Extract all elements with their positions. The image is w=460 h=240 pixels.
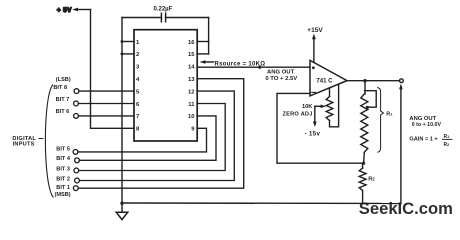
svg-text:741 C: 741 C (316, 79, 333, 85)
svg-text:10K: 10K (302, 104, 313, 110)
svg-text:ANG OUT: ANG OUT (267, 70, 295, 76)
svg-text:- 15v: - 15v (305, 131, 321, 137)
svg-text:10: 10 (188, 114, 195, 120)
svg-text:11: 11 (188, 102, 195, 108)
junction pin 2 stub (121, 52, 124, 55)
brace R1 (378, 88, 384, 153)
arrow +15V supply to op-amp (312, 34, 316, 40)
svg-text:BIT 4: BIT 4 (56, 156, 71, 162)
svg-text:(LSB): (LSB) (56, 77, 71, 83)
svg-text:(MSB): (MSB) (55, 192, 71, 198)
svg-text:BIT 6: BIT 6 (56, 109, 70, 115)
wire output node down to R1 (364, 81, 366, 94)
op-amp - input mark (312, 91, 316, 93)
svg-text:ANG OUT: ANG OUT (409, 116, 436, 122)
svg-text:Rsource = 10KΩ: Rsource = 10KΩ (215, 62, 266, 68)
terminal BIT 7 (74, 101, 79, 106)
arrow Rsource pointing to pin 14 (200, 60, 206, 64)
svg-text:+ 5V: + 5V (57, 7, 72, 14)
wire BIT 6 to pin 7 (78, 115, 134, 117)
wire +5V rail down to pin 8 (91, 10, 135, 129)
potentiometer 10K zero adjust (326, 97, 333, 121)
svg-text:R2: R2 (368, 176, 375, 182)
terminal BIT 6 (74, 114, 79, 119)
wire output measure line with up arrow (400, 87, 402, 204)
svg-text:BIT 8: BIT 8 (53, 85, 67, 91)
svg-text:0 TO + 2.5V: 0 TO + 2.5V (265, 76, 297, 82)
svg-text:ZERO ADJ: ZERO ADJ (282, 111, 312, 117)
svg-text:BIT 3: BIT 3 (56, 166, 70, 172)
wire pin 2 stub (122, 53, 134, 55)
junction on pin 14 wire (258, 66, 261, 69)
IC U1 DAC (134, 30, 197, 141)
svg-text:0 to + 10.0V: 0 to + 10.0V (412, 122, 442, 128)
junction R1 tap (366, 106, 369, 109)
wire cap right to bypass vertical (166, 17, 209, 19)
capacitor C1 plates (161, 13, 165, 21)
arrow pot wiper (315, 105, 323, 107)
op-amp + input mark (312, 66, 315, 69)
wire pot bottom loop to op-amp null pin (330, 84, 339, 127)
wire pin 1 stub (122, 41, 134, 43)
junction feedback node (362, 162, 365, 165)
brace digital inputs group (39, 85, 54, 198)
svg-text:INPUTS: INPUTS (13, 141, 35, 147)
svg-text:SeekIC.com: SeekIC.com (359, 199, 453, 218)
terminal BIT 4 (75, 158, 80, 163)
terminal BIT 8 (74, 89, 79, 94)
terminal BIT 5 (73, 150, 78, 155)
resistor R2 (359, 168, 366, 191)
fraction bar gain formula (442, 138, 453, 140)
svg-text:BIT 2: BIT 2 (56, 176, 70, 182)
svg-text:16: 16 (188, 40, 195, 46)
wire BIT 8 to pin 5 (79, 90, 134, 92)
svg-text:15: 15 (188, 52, 195, 58)
terminal output (400, 79, 404, 83)
svg-text:R1: R1 (444, 134, 450, 140)
wire ground bus vertical (121, 18, 123, 213)
wire pin 16 stub (197, 41, 209, 43)
wire R2 bottom to rail (362, 191, 364, 204)
svg-text:+15V: +15V (307, 27, 323, 34)
wire inverting input to feedback node (277, 93, 364, 163)
ground symbol (116, 212, 128, 219)
terminal BIT 3 (74, 168, 79, 173)
svg-text:R1: R1 (386, 112, 393, 118)
junction pin 1 stub (121, 40, 124, 43)
wire BIT 4 to pin 10 (79, 116, 216, 160)
wire bottom ground rail (122, 202, 401, 205)
svg-text:12: 12 (188, 89, 195, 95)
wire wiper to -15V (314, 106, 316, 122)
power +5V label and arrow (57, 7, 91, 14)
wire BIT 7 to pin 6 (78, 103, 134, 105)
wire R1 bottom to feedback node (363, 152, 366, 163)
svg-text:BIT 1: BIT 1 (56, 185, 70, 191)
svg-text:0.22µF: 0.22µF (154, 7, 173, 13)
op-amp U2 741C (310, 60, 347, 96)
wire R1 tap loop (365, 91, 377, 108)
svg-text:GAIN = 1 +: GAIN = 1 + (409, 137, 438, 143)
wire feedback node to R2 (362, 163, 364, 168)
wire BIT 5 to pin 9 (78, 128, 207, 152)
junction output node (363, 79, 366, 82)
arrow -15V (313, 122, 317, 128)
resistor R1 (361, 94, 368, 152)
svg-text:13: 13 (188, 77, 195, 83)
wire bypass vertical to pins 16 and 15 (208, 18, 210, 54)
svg-text:R2: R2 (444, 142, 450, 148)
junction ground bus to bottom rail (120, 202, 123, 205)
terminal BIT 2 (75, 178, 80, 183)
svg-text:BIT 5: BIT 5 (56, 146, 70, 152)
wire op-amp output (347, 80, 400, 82)
wire pin 14 to op-amp noninverting input (197, 66, 310, 68)
wire cap left to ground bus (122, 17, 161, 19)
svg-text:14: 14 (188, 65, 195, 71)
wire BIT 2 to pin 12 (79, 91, 234, 180)
svg-text:BIT 7: BIT 7 (56, 97, 70, 103)
wire pin 15 stub (197, 53, 209, 55)
wire zero-adj pot top to op-amp (329, 88, 331, 97)
terminal BIT 1 (73, 186, 78, 191)
wire BIT 3 to pin 11 (79, 104, 226, 171)
wire BIT 1 to pin 13 (78, 79, 244, 189)
